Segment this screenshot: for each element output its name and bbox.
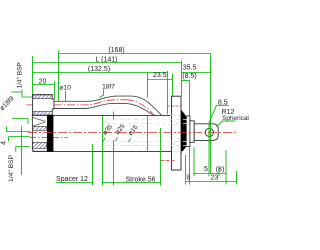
svg-text:Spherical: Spherical	[222, 115, 249, 122]
svg-text:ø35: ø35	[102, 123, 115, 136]
svg-text:8: 8	[187, 175, 191, 182]
svg-text:ø25: ø25	[114, 123, 127, 136]
svg-text:(132.5): (132.5)	[88, 66, 110, 73]
svg-text:Spacer 12: Spacer 12	[56, 176, 88, 183]
svg-text:35.5: 35.5	[183, 65, 197, 72]
svg-text:5: 5	[204, 166, 208, 173]
svg-text:(8.5): (8.5)	[182, 73, 196, 80]
svg-text:18f7: 18f7	[102, 83, 115, 90]
svg-text:23.5: 23.5	[153, 72, 167, 79]
svg-text:8.5: 8.5	[218, 99, 228, 106]
svg-text:1/4" BSP: 1/4" BSP	[17, 62, 24, 88]
svg-text:1/4" BSP: 1/4" BSP	[8, 155, 15, 182]
svg-text:(8): (8)	[216, 166, 225, 173]
svg-text:L (141): L (141)	[96, 56, 118, 63]
svg-text:Stroke 56: Stroke 56	[126, 177, 156, 184]
svg-text:23: 23	[211, 175, 219, 182]
svg-text:ø18f9: ø18f9	[0, 95, 16, 112]
svg-text:ø10: ø10	[59, 85, 71, 92]
svg-text:20: 20	[39, 78, 47, 85]
svg-text:(168): (168)	[108, 47, 124, 54]
svg-text:4: 4	[1, 141, 8, 145]
svg-text:ø16: ø16	[127, 124, 140, 137]
